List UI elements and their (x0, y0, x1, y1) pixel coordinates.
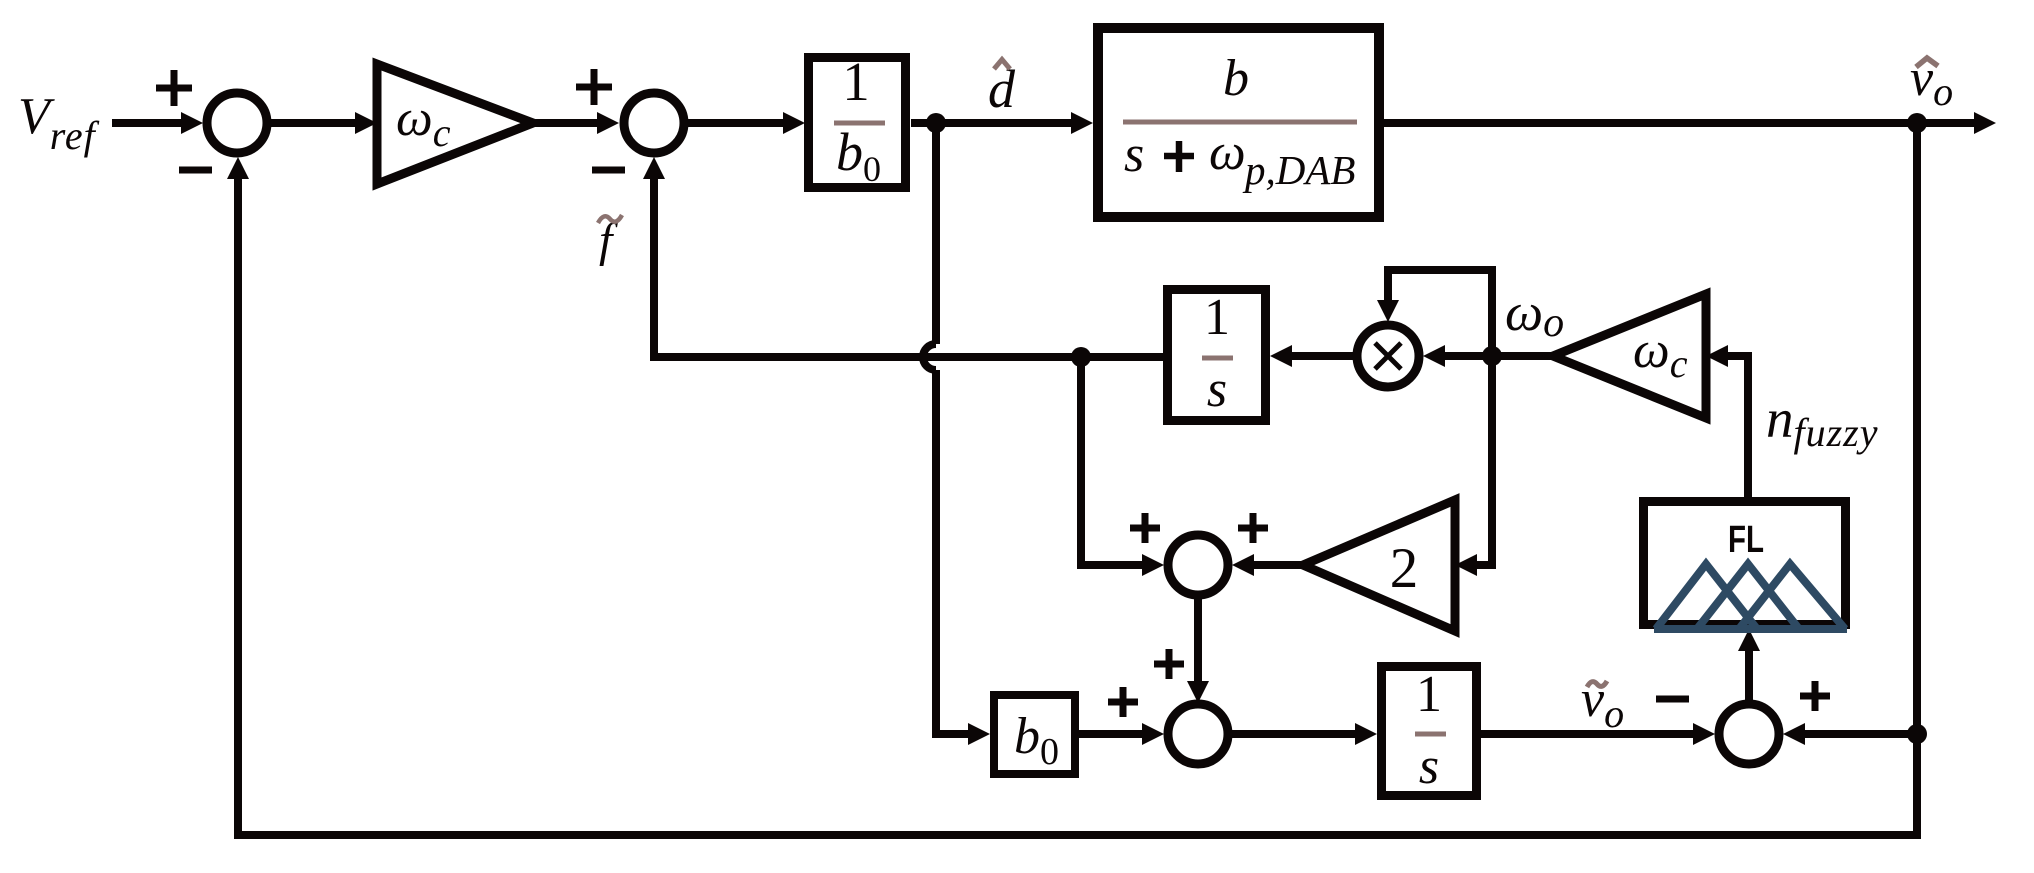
arrowhead into 1/s1 (1270, 345, 1292, 367)
minus sign at S1 (179, 167, 212, 174)
plus sign at S1 (156, 70, 192, 106)
plus sign at S3 left (1130, 513, 1160, 543)
wire vo node to sum5 (1800, 730, 1913, 738)
arrowhead into sum3 right (1232, 554, 1254, 576)
arrowhead feedback into sum1 bottom (227, 157, 249, 179)
wire sum3 to sum4 (1194, 599, 1202, 684)
wire column down to gain 2 (1477, 356, 1492, 565)
wire node d to plant block (936, 119, 1077, 127)
arrowhead into sum5 left (1693, 723, 1715, 745)
block 1/s first (1168, 290, 1266, 421)
wire Vref input (112, 119, 186, 127)
wire hop over feedback line (923, 344, 936, 370)
wire block 1/b0 to node d (911, 119, 936, 127)
node dot wo (1482, 346, 1502, 366)
block 1/s second (1382, 667, 1477, 796)
svg-text:s: s (1207, 361, 1227, 418)
block FL (1644, 502, 1846, 625)
wire vo vertical to bottom rail (1913, 734, 1921, 839)
multiplier cross (1375, 343, 1401, 369)
wire plant output to vo arrow (1384, 119, 1978, 127)
svg-text:1: 1 (1416, 666, 1442, 723)
arrowhead into gain 2 (1455, 554, 1477, 576)
arrowhead into sum3 left (1142, 554, 1164, 576)
block b0 (994, 695, 1075, 774)
wire sum2 to block 1/b0 (688, 119, 789, 127)
gain block wc2 triangle (1553, 294, 1706, 418)
label d hat (988, 59, 1016, 119)
arrowhead into sum5 right (1783, 723, 1805, 745)
wire sum1 to gain wc1 (271, 119, 360, 127)
block 1/b0 (809, 58, 906, 188)
arrowhead into sum4 left (1142, 723, 1164, 745)
wire gain wc1 to sum2 (533, 119, 602, 127)
gain block wc1 triangle (377, 64, 533, 184)
svg-text:2: 2 (1390, 537, 1419, 600)
node dot d (926, 113, 946, 133)
label vo tilde (1581, 671, 1624, 736)
arrowhead into plant block (1071, 112, 1093, 134)
wire mult self loop (1388, 270, 1492, 356)
arrowhead into sum4 top (1187, 681, 1209, 703)
wire sum4 to 1/s2 (1232, 730, 1360, 738)
plus sign at S3 right (1238, 513, 1268, 543)
arrowhead into gain wc1 (355, 112, 377, 134)
arrowhead into mult top (1377, 300, 1399, 322)
multiplier M1 (1357, 325, 1419, 387)
svg-text:s: s (1419, 738, 1439, 795)
summing junction S2 (624, 93, 684, 153)
wire sum5 to FL block (1745, 648, 1753, 700)
label f tilde (598, 214, 622, 267)
arrowhead into FL bottom (1738, 629, 1760, 651)
minus sign at S2 (592, 167, 625, 174)
arrowhead into b0 block (968, 723, 990, 745)
arrowhead into sum2 (597, 112, 619, 134)
svg-text:1: 1 (1204, 289, 1230, 346)
arrowhead into 1/s2 (1355, 723, 1377, 745)
summing junction S4 (1168, 704, 1228, 764)
wire feedback 1/s1 to sum2 (654, 176, 1164, 357)
wire gain 2 to sum3 (1250, 561, 1303, 569)
label vo hat output (1910, 50, 1953, 114)
FL membership triangles (1654, 564, 1847, 629)
fraction bar in 1/s2 (1415, 732, 1446, 737)
svg-text:s: s (1124, 126, 1144, 183)
svg-text:FL: FL (1728, 519, 1764, 561)
arrowhead f into sum2 bottom (643, 157, 665, 179)
svg-text:p,DAB: p,DAB (1242, 147, 1355, 193)
arrowhead into sum1 (181, 112, 203, 134)
wire d vertical to b0 block (936, 730, 973, 734)
summing junction S1 (207, 93, 267, 153)
node dot J1 feedback (1071, 347, 1091, 367)
arrowhead into gain wc2 (1706, 345, 1728, 367)
svg-text:d: d (988, 59, 1016, 119)
fraction bar in 1/s1 (1202, 356, 1233, 361)
wire vo node vertical down (1913, 123, 1921, 734)
wire mult to 1/s1 (1288, 352, 1354, 360)
plus sign at S2 (576, 69, 612, 105)
wire d vertical lower segment (932, 370, 940, 734)
wire d vertical upper segment (932, 123, 940, 344)
svg-text:b: b (1223, 50, 1249, 107)
minus sign at S5 (1656, 696, 1689, 703)
fraction bar in plant block (1123, 120, 1357, 125)
wire wc2 output to mult (1443, 352, 1553, 360)
wire b0 to sum4 (1079, 730, 1146, 738)
fraction bar in 1/b0 (834, 121, 885, 126)
plant block b/(s+wp) (1098, 28, 1379, 217)
node dot vo (1907, 113, 1927, 133)
wire bottom rail (238, 176, 1921, 835)
summing junction S3 (1168, 535, 1228, 595)
svg-text:1: 1 (842, 51, 870, 112)
wire node J1 down to sum3 (1081, 357, 1146, 565)
plus sign at S4 top (1154, 649, 1184, 679)
arrowhead into mult right (1423, 345, 1445, 367)
plus sign at S4 left (1108, 687, 1138, 717)
wire FL output to gain wc2 (1723, 356, 1748, 497)
node dot vo bottom (1907, 724, 1927, 744)
arrowhead into block 1/b0 (783, 112, 805, 134)
arrowhead vo output (1974, 112, 1996, 134)
brown fraction bars (834, 122, 1446, 734)
plus sign at S5 (1800, 681, 1830, 711)
summing junction S5 (1719, 704, 1779, 764)
gain block 2 triangle (1303, 500, 1455, 631)
wire 1/s2 to sum5 (1481, 730, 1697, 738)
svg-text:ω: ω (1209, 124, 1246, 181)
